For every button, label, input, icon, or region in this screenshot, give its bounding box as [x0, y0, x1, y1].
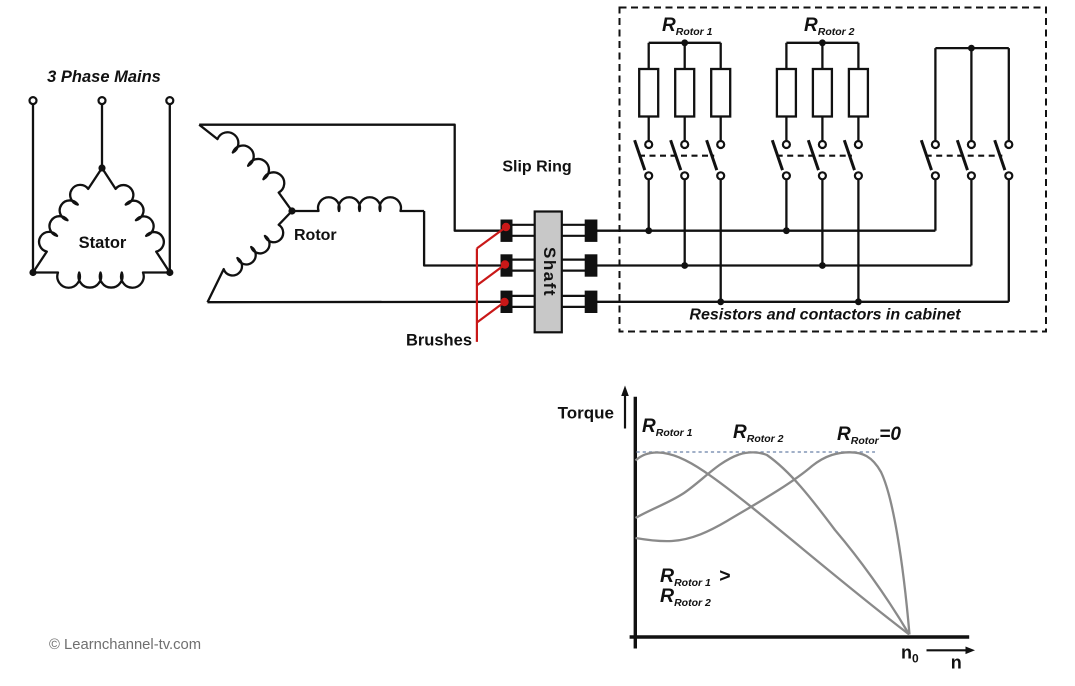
svg-text:3 Phase Mains: 3 Phase Mains — [47, 68, 161, 86]
svg-text:RRotor=0: RRotor=0 — [837, 424, 901, 447]
svg-text:n: n — [951, 653, 962, 673]
svg-text:RRotor 1: RRotor 1 — [642, 416, 693, 439]
svg-text:Torque: Torque — [558, 404, 614, 423]
svg-text:Rotor: Rotor — [294, 227, 337, 244]
svg-text:RRotor 2: RRotor 2 — [804, 15, 855, 38]
svg-text:n0: n0 — [901, 643, 919, 666]
svg-text:© Learnchannel-tv.com: © Learnchannel-tv.com — [49, 637, 201, 653]
svg-text:Resistors and contactors in ca: Resistors and contactors in cabinet — [689, 307, 961, 324]
svg-text:RRotor 1: RRotor 1 — [662, 15, 713, 38]
svg-text:Slip Ring: Slip Ring — [502, 159, 571, 176]
svg-text:Brushes: Brushes — [406, 332, 472, 350]
svg-text:Shaft: Shaft — [540, 247, 559, 297]
svg-text:RRotor 2: RRotor 2 — [733, 422, 784, 445]
svg-text:Stator: Stator — [79, 234, 127, 252]
